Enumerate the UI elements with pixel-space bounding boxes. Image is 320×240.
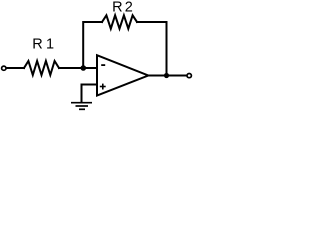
op-amp minus input label	[101, 64, 105, 66]
wire	[148, 75, 186, 77]
svg-text:1: 1	[46, 37, 54, 53]
op-amp plus input label	[100, 84, 106, 90]
node junction at inverting input	[81, 65, 87, 71]
wire	[83, 22, 102, 68]
op-amp U1	[97, 55, 148, 95]
ground	[71, 103, 92, 110]
node junction at output	[164, 73, 169, 78]
wire	[137, 22, 167, 76]
output terminal	[187, 74, 191, 78]
wire	[82, 85, 98, 103]
wire	[7, 67, 24, 69]
svg-text:2: 2	[125, 0, 133, 16]
resistor R2	[102, 15, 137, 28]
input terminal	[2, 66, 6, 70]
svg-text:R: R	[112, 0, 122, 16]
resistor R1	[24, 61, 59, 75]
wire	[59, 67, 97, 69]
svg-text:R: R	[32, 37, 42, 53]
